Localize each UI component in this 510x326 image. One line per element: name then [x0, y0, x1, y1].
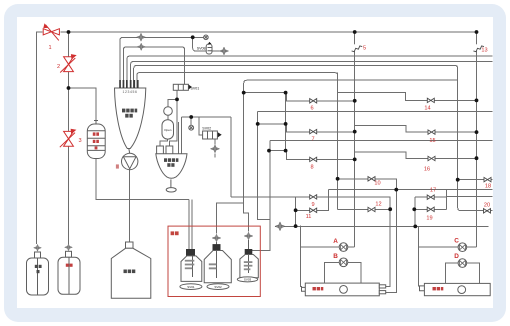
SV01 arrow [189, 85, 192, 90]
svg-text:SV08: SV08 [197, 46, 206, 50]
wire row valve18 [458, 179, 493, 181]
valve 18 [484, 177, 491, 181]
svg-text:123456: 123456 [123, 90, 138, 94]
wire line y111 [258, 110, 493, 112]
svg-text:SV02: SV02 [214, 285, 222, 289]
svg-text:SV01: SV01 [191, 86, 200, 90]
bottle B2 dip tube [216, 251, 218, 279]
furnace 2 circle [458, 286, 466, 294]
SV08 cylinder [206, 44, 212, 54]
wire fan p1 to SV08 net [120, 37, 220, 88]
svg-text:20: 20 [484, 203, 490, 209]
cross X5 on long line [275, 222, 285, 231]
svg-text:15: 15 [429, 138, 435, 144]
valve B circle [339, 258, 348, 267]
wire row valve17 [415, 196, 447, 198]
svg-text:B: B [333, 253, 338, 260]
bottle L1 seam [37, 258, 39, 295]
wire vert x338 [337, 73, 339, 210]
valve 15 [428, 130, 435, 134]
wire SV01 junction to gauge2 prong [169, 99, 177, 146]
wire line y140 [270, 139, 493, 141]
svg-text:19: 19 [426, 216, 432, 222]
gauge circle near Open bulb [164, 107, 173, 116]
wire long line y226 [275, 225, 489, 227]
SV02 arrow [218, 132, 222, 137]
wire manifold x285 [285, 93, 287, 151]
wire riser to bottle L1 [37, 32, 43, 244]
bottle B1 text lines [185, 260, 195, 269]
wire valve C line [418, 226, 476, 286]
waste bottle cap [126, 242, 134, 248]
gauge U1 connector prongs [119, 80, 138, 88]
svg-text:17: 17 [430, 188, 436, 194]
wire left valve chain vertical [68, 32, 70, 244]
vacuum gauge U2 stem [170, 179, 172, 187]
valve 11 [310, 208, 317, 212]
furnace 1 body [305, 283, 379, 296]
bottle B2 body [204, 251, 231, 283]
filter internal lines [88, 131, 106, 151]
wire vert x446 [445, 190, 447, 210]
valve 19 [427, 207, 434, 211]
bottle B3 cap [245, 250, 252, 255]
valve A circle [339, 243, 348, 252]
SV01 valve body [173, 84, 188, 90]
valve 17 [427, 195, 434, 199]
svg-text:12: 12 [375, 202, 381, 208]
svg-text:8: 8 [310, 165, 313, 171]
Open bulb capsule [162, 120, 174, 139]
wire SV02 to manifold [230, 117, 232, 197]
bottle B1 label ellipse [180, 284, 202, 290]
wire valve D loop [446, 263, 480, 283]
cross X3 [219, 47, 228, 55]
svg-text:SV02: SV02 [202, 127, 211, 131]
cross X4 below SV02 [210, 145, 219, 153]
cross bottle B3 [244, 232, 253, 240]
furnace 1 left notch [302, 287, 306, 291]
vacuum gauge U2 funnel [156, 154, 187, 179]
bottle L2 neck [66, 251, 72, 257]
red box label 采集 [171, 231, 179, 235]
wire vert x390 to furnace1 tab [386, 209, 391, 286]
bottle L1 body [27, 258, 49, 295]
svg-text:13: 13 [481, 48, 487, 54]
svg-text:Open: Open [164, 128, 172, 132]
filter top tick [94, 121, 98, 125]
wire row valve19 [414, 208, 446, 210]
filter column [87, 124, 105, 159]
wire row valve6 [244, 93, 355, 101]
wire vert x416 [414, 197, 416, 226]
bottle B1 body [181, 256, 202, 282]
svg-text:2: 2 [57, 64, 60, 70]
bottle B3 label ellipse [237, 277, 257, 282]
furnace 2 body [424, 283, 490, 295]
bottle B2 label ellipse [207, 284, 229, 290]
valve 20 [484, 209, 491, 213]
valve 6 [310, 99, 317, 103]
small black labels [164, 46, 251, 288]
cross bottle L1 cap [34, 244, 42, 251]
wire pump to waste bottle [129, 170, 131, 242]
break symbol 5 [353, 44, 357, 50]
svg-text:1: 1 [48, 45, 51, 51]
gauge circle-x mid [189, 125, 194, 130]
wire branch y196 [446, 195, 492, 197]
pump P1 triangle [123, 157, 136, 169]
wire junction to filter [69, 88, 97, 124]
wire row valve11 [296, 190, 329, 211]
valve 9 [310, 195, 317, 199]
valve C circle [458, 243, 467, 252]
wire bottle B2 riser [217, 203, 244, 233]
furnace 1 circle [340, 286, 348, 294]
svg-text:A: A [333, 238, 338, 245]
wire vert x270 to bottle B3 tap [252, 140, 271, 250]
svg-text:14: 14 [424, 106, 430, 112]
vacuum gauge U2 prong blocks [157, 146, 164, 154]
svg-text:D: D [454, 253, 459, 260]
bottle L1 label [35, 265, 42, 273]
valve 16 [428, 156, 435, 160]
bottle B2 text lines [209, 263, 217, 269]
wire row valve15 [355, 126, 477, 133]
wire vert x243 [244, 80, 247, 203]
wire fan p5 to valve20 row [134, 65, 493, 210]
wire fan p2 to SV01 [123, 47, 184, 88]
svg-text:6: 6 [310, 106, 313, 112]
red letter labels A-D [333, 237, 459, 260]
bottle B3 body [240, 255, 258, 278]
wire top main line [61, 31, 477, 33]
svg-text:10: 10 [374, 181, 380, 187]
wire staircase to bottle B3 [244, 203, 249, 231]
wire valve A line [301, 246, 355, 248]
cross X1 [136, 33, 145, 41]
cross X2 [137, 43, 145, 50]
red valve V1 [43, 23, 59, 40]
wire fan p4 [131, 62, 493, 89]
wire gauge2 header [178, 117, 231, 154]
furnace 2 red label [433, 287, 444, 290]
bottle B2 cap [213, 245, 220, 251]
bottle L2 seam [68, 257, 70, 294]
pump red glyph [116, 164, 119, 168]
wire fan p3 [127, 56, 493, 88]
bottle B2 stem [216, 242, 218, 245]
break symbol 13 [473, 46, 484, 52]
wire row valve8 [269, 151, 355, 160]
CJK text as glyph blocks : gauge U1 label [122, 109, 137, 118]
red valve V3 [60, 129, 77, 147]
quick-coupling crosses [34, 33, 285, 251]
wire valve B loop [324, 262, 361, 283]
wire long line y189 [328, 189, 492, 191]
black mini valves (bowties) [310, 98, 491, 213]
bottle B1 cap [187, 250, 195, 256]
vacuum gauge U1 stem [128, 149, 131, 154]
svg-text:SV03: SV03 [244, 278, 252, 282]
red collection box [168, 226, 260, 296]
wire fan p6 [137, 73, 338, 88]
filter red label [93, 132, 99, 149]
wire row valve9 [231, 197, 390, 209]
valve 14 [427, 98, 434, 102]
waste bottle body [111, 248, 151, 298]
wire row valve14 [338, 93, 477, 101]
svg-text:5: 5 [363, 46, 366, 52]
wire vert x257 [258, 111, 270, 219]
bottle L1 neck [35, 252, 41, 258]
gauge U2 label [164, 158, 178, 167]
svg-text:18: 18 [485, 184, 491, 190]
bottle L2 body [58, 257, 80, 294]
SV02 valve body [203, 131, 218, 139]
svg-text:16: 16 [424, 167, 430, 173]
wire main vertical x354 [354, 32, 356, 247]
red number labels [48, 45, 491, 222]
breather circle-x top [204, 35, 209, 40]
wire double tube to bottle B1 [189, 200, 192, 250]
svg-text:11: 11 [306, 214, 312, 220]
cross bottle L2 cap [65, 244, 73, 251]
cross bottle B2 [212, 234, 221, 242]
wire row valve10 [338, 179, 397, 292]
waste bottle label [124, 270, 136, 274]
bottle B3 dip tube [248, 255, 250, 274]
svg-text:7: 7 [311, 137, 314, 143]
valve 10 [368, 177, 375, 181]
valve D circle [458, 259, 467, 268]
red valve V2 [60, 54, 76, 72]
wire filter down and across [96, 159, 189, 200]
valve 8 [310, 157, 317, 161]
svg-text:SV01: SV01 [187, 285, 195, 289]
svg-text:3: 3 [78, 138, 81, 144]
wire SV02 bottom cross [214, 139, 216, 158]
valve 7 [310, 129, 317, 133]
wire row valve12 [338, 208, 391, 210]
bottle B3 text lines [244, 261, 253, 270]
wire line y80 [247, 79, 458, 81]
pump P1 circle [122, 153, 138, 169]
bottle B1 dip tube [192, 256, 194, 277]
vacuum gauge U1 funnel [115, 88, 146, 149]
furnace 1 red label [313, 287, 324, 290]
furnace 2 left notch [420, 286, 425, 291]
wire SV01 out junction [160, 90, 177, 146]
wire row valve16 [355, 152, 477, 159]
svg-text:9: 9 [311, 202, 314, 208]
wire vert x297 to valve A [296, 197, 302, 287]
valve 12 [368, 207, 375, 211]
furnace 1 tabs [379, 285, 385, 288]
bottle B3 stem [248, 240, 250, 250]
bottle L2 red label [66, 264, 73, 267]
vacuum gauge U2 foot [166, 188, 176, 192]
svg-text:C: C [454, 237, 459, 244]
wire main vertical x476 [476, 32, 478, 247]
wire row valve7 [258, 124, 355, 132]
